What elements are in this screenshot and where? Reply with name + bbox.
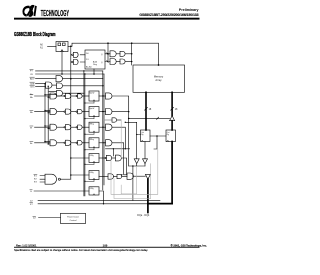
wire row3 output bbox=[99, 126, 106, 128]
wire A0A1 to burst counter bbox=[48, 45, 57, 47]
driver triangle T1 bbox=[134, 159, 139, 164]
gate G14 row1 output gate bbox=[106, 93, 112, 99]
wire drop from link bbox=[154, 136, 157, 149]
wire counter output top bus bbox=[68, 43, 159, 65]
gate G32 output enable gate bbox=[127, 173, 133, 179]
wire DQ horizontal thick bbox=[148, 203, 172, 205]
node ZZ input label bbox=[30, 200, 33, 202]
register R5 control reg row5 bbox=[89, 154, 99, 163]
wire elbow to output reg 1 bbox=[125, 122, 140, 134]
wire address register clock stub bbox=[93, 69, 95, 74]
wire clock distribution bbox=[63, 85, 103, 87]
header rule bbox=[14, 18, 200, 20]
gate G33 enable AND E1E2E3 bbox=[45, 174, 57, 184]
svg-text:Reg: Reg bbox=[93, 64, 97, 66]
wire drop from top line at x108 bbox=[107, 43, 109, 61]
wire address rail into memory bbox=[131, 43, 133, 65]
wire row1 input bbox=[35, 95, 51, 97]
wire row4 output bbox=[99, 142, 106, 144]
wire row2 output bbox=[99, 111, 106, 113]
svg-text:TECHNOLOGY: TECHNOLOGY bbox=[41, 9, 70, 18]
bus width slash right bbox=[171, 107, 174, 110]
burst counter U1 bbox=[56, 42, 68, 52]
gate G25 row4 stage2 bbox=[64, 142, 65, 143]
wire write data bus left thick bbox=[145, 92, 147, 130]
gray feedback wire 3 bbox=[114, 164, 151, 199]
wire row5 output bbox=[99, 157, 105, 159]
gate G22 row3 output gate bbox=[106, 124, 113, 130]
wire row7 output down to FT line bbox=[99, 191, 104, 204]
node sleep input label bbox=[33, 218, 36, 220]
node ADV input label bbox=[30, 78, 35, 81]
node CK input label bbox=[30, 74, 34, 76]
gate G1 bubble-AND row1 of address register bbox=[72, 54, 74, 56]
gray feedback wire 1 bbox=[111, 120, 158, 199]
driver triangle T2 bbox=[143, 159, 148, 164]
wire driver output down bbox=[132, 166, 134, 200]
wire rail from counter junction down to enable gate bbox=[70, 46, 72, 179]
power down control box U6 bbox=[61, 213, 86, 223]
svg-text:Power Down: Power Down bbox=[67, 215, 80, 218]
register R4 write reg row4 bbox=[89, 138, 99, 148]
svg-text:Rg: Rg bbox=[141, 134, 143, 136]
svg-text:Rev: 1.02 5/2001: Rev: 1.02 5/2001 bbox=[16, 243, 37, 247]
output register U5 bbox=[166, 130, 176, 142]
svg-text:Memory: Memory bbox=[154, 75, 164, 79]
wire clock vertical from counter bbox=[61, 52, 63, 75]
node G label row7 bbox=[30, 191, 32, 193]
svg-text:CK: CK bbox=[30, 74, 34, 76]
junction dots top line bbox=[70, 42, 133, 47]
register R6 control reg row6 bbox=[89, 171, 99, 180]
node W label bbox=[30, 127, 33, 129]
sense amp triangle bbox=[170, 116, 175, 121]
svg-text:109: 109 bbox=[103, 243, 108, 247]
wire out reg1 outputs down bbox=[137, 135, 145, 159]
gate G16 row2 stage2 bbox=[64, 111, 65, 112]
svg-text:Rg: Rg bbox=[167, 134, 169, 136]
svg-text:A1-A0: A1-A0 bbox=[86, 66, 92, 69]
node G label bbox=[30, 143, 33, 145]
register R2 byte write reg row2 bbox=[89, 107, 99, 117]
register R7 control reg row7 bbox=[89, 187, 99, 195]
gate G19 row3 stage1 bbox=[50, 124, 57, 130]
wire ZZ line bbox=[38, 199, 160, 201]
gray feedback wire 4 bbox=[121, 166, 136, 194]
wire between output registers bbox=[150, 135, 166, 137]
address register U2 bbox=[85, 50, 105, 69]
gate G29 row5 gate2 bbox=[115, 155, 121, 161]
wire addr reg outputs with bus ticks bbox=[105, 54, 110, 62]
wire DQ from out reg2 thick bbox=[171, 142, 173, 204]
wire enable inputs bbox=[40, 176, 45, 183]
svg-text:G: G bbox=[30, 191, 32, 193]
node E1 E2 E3 labels bbox=[34, 176, 37, 184]
wire ADV to gate bbox=[36, 78, 57, 80]
svg-text:Specifications cited are subje: Specifications cited are subject to chan… bbox=[14, 249, 148, 252]
wire FT line bbox=[38, 203, 147, 205]
svg-text:Control: Control bbox=[70, 219, 77, 222]
wire FT and CK long lines bbox=[36, 71, 105, 74]
wire row2 input bbox=[35, 110, 51, 112]
bus slash on read line bbox=[157, 117, 159, 119]
gate G8 CKE gate bbox=[46, 82, 53, 88]
wire triangle outputs to collector bbox=[137, 164, 145, 166]
node DQ label bbox=[137, 214, 150, 217]
wire row6 output bbox=[99, 176, 108, 178]
gate G13 row1 stage3 bbox=[76, 95, 77, 96]
gate G5 address row B bbox=[110, 59, 116, 65]
node A0 A1 input label bbox=[40, 43, 44, 49]
node Ba label bbox=[30, 94, 33, 99]
svg-text:© 2001, GSI Technology, Inc.: © 2001, GSI Technology, Inc. bbox=[171, 243, 208, 247]
wire row1 output bbox=[99, 95, 106, 97]
gate G12 row1 stage2 bbox=[64, 95, 65, 96]
middle rails bbox=[84, 71, 85, 196]
svg-text:GS880Z18B Block Diagram: GS880Z18B Block Diagram bbox=[14, 32, 56, 38]
GSI logo mark bbox=[23, 6, 35, 16]
gate G10 clock gate low bbox=[57, 90, 63, 96]
node Bb label bbox=[30, 112, 33, 114]
gate G3 address row A bbox=[110, 51, 116, 57]
svg-text:WReg: WReg bbox=[90, 139, 95, 141]
gate G28 row5 gate1 bbox=[105, 157, 106, 158]
left rails bbox=[45, 84, 48, 144]
gate G11 row1 stage1 bbox=[50, 93, 57, 99]
wire collector y166 bbox=[129, 165, 145, 167]
gate G26 row4 stage3 bbox=[76, 142, 77, 143]
gate G20 row3 stage2 bbox=[64, 127, 65, 128]
svg-text:ADV: ADV bbox=[30, 78, 35, 81]
svg-text:WReg: WReg bbox=[90, 124, 95, 126]
svg-text:Array: Array bbox=[155, 78, 162, 82]
wire enable AND output bbox=[60, 178, 70, 180]
wire row5 input bbox=[71, 157, 89, 159]
wire DQ vertical thick bbox=[147, 179, 149, 212]
gate G18 row2 output gate bbox=[106, 109, 112, 115]
gate G2 bubble-AND row2 of address register bbox=[72, 61, 74, 63]
gray feedback wire 2 bbox=[111, 150, 158, 195]
output register U4 bbox=[141, 130, 151, 142]
footer rule bbox=[14, 246, 200, 249]
gate G30 row6 gate1 bbox=[108, 174, 114, 179]
wire row3 input bbox=[35, 126, 51, 128]
gate G15 row2 stage1 bbox=[50, 109, 57, 115]
memory array U3 bbox=[133, 65, 185, 92]
register R1 byte write reg row1 bbox=[89, 91, 99, 101]
gate G21 row3 stage3 bbox=[76, 127, 77, 128]
gate G24 row4 stage1 bbox=[50, 140, 57, 146]
gate G17 row2 stage3 bbox=[76, 111, 77, 112]
wire sleep input bbox=[39, 217, 61, 219]
svg-text:DQa · DQb: DQa · DQb bbox=[137, 214, 150, 217]
gate G31 row6 gate2 bbox=[117, 174, 122, 178]
node CKE input label bbox=[30, 84, 35, 89]
wire row4 input bbox=[35, 142, 51, 144]
driver triangle T3 bbox=[145, 174, 150, 179]
wire CKE lines to gate bbox=[36, 84, 46, 87]
register R3 write reg row3 bbox=[89, 122, 99, 132]
bus width slash left bbox=[145, 107, 148, 110]
gate G6 address row B stage 2 bbox=[120, 59, 125, 64]
wire horizontal to sense amp bbox=[129, 117, 170, 119]
wire rail A right side bbox=[128, 118, 130, 120]
gate G23 gray path gate bbox=[112, 118, 117, 122]
svg-text:GS880Z18BT-250/225/200/166/150: GS880Z18BT-250/225/200/166/150/133 bbox=[139, 13, 198, 17]
gate G9 CKE stage 2 bbox=[57, 83, 63, 89]
gray feedback gate row3 bbox=[104, 119, 112, 121]
gate G7 ADV gate bbox=[56, 76, 62, 82]
svg-text:CKC: CKC bbox=[30, 87, 35, 89]
node FT input label bbox=[30, 204, 33, 206]
gate G27 row4 output gate bbox=[106, 140, 113, 146]
node FT input label bbox=[30, 71, 33, 73]
wire read data bus right thick bbox=[171, 92, 173, 115]
wire row6 input bbox=[71, 174, 89, 176]
gate G4 address row A stage 2 bbox=[120, 51, 125, 56]
wire row7 input bbox=[34, 190, 89, 192]
svg-text:Preliminary: Preliminary bbox=[179, 8, 199, 12]
right mid rails bbox=[103, 71, 104, 190]
